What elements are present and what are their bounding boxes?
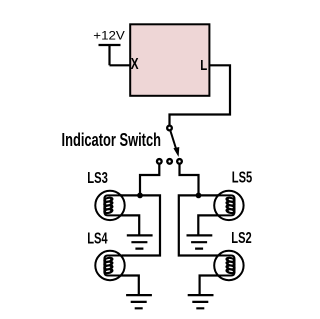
svg-text:L: L <box>200 57 207 74</box>
svg-text:LS3: LS3 <box>87 170 108 187</box>
svg-text:Indicator Switch: Indicator Switch <box>62 130 162 150</box>
svg-text:X: X <box>131 56 139 73</box>
svg-text:LS4: LS4 <box>87 230 108 247</box>
svg-text:LS5: LS5 <box>232 170 253 187</box>
svg-text:+12V: +12V <box>93 29 125 43</box>
svg-text:LS2: LS2 <box>231 230 251 247</box>
